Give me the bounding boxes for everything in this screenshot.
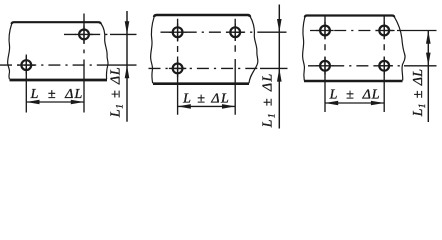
svg-text:L ± ΔL: L ± ΔL xyxy=(30,87,84,102)
L1 lower extension line xyxy=(108,64,137,66)
hole crosshair at (384.2,65.8) xyxy=(376,57,393,74)
dimension L line fig1 xyxy=(26,101,84,103)
holes C3/C4 horizontal centerline (y=65.8) xyxy=(308,65,404,67)
hole C3 xyxy=(320,61,330,71)
dimension L line fig3 xyxy=(325,102,384,104)
holes C2/C4 vertical centerline / L extension xyxy=(383,17,385,113)
plate 1 top edge xyxy=(12,22,101,24)
plate 3 bottom edge xyxy=(304,80,403,83)
plate 2 left break edge xyxy=(151,17,155,84)
hole B2 vertical centerline / L extension xyxy=(234,19,236,115)
arrow down fig1 L1 (above upper ext) xyxy=(125,21,130,34)
hole A2 vertical centerline / L extension xyxy=(83,14,85,113)
dimension L line fig2 xyxy=(178,105,236,107)
L1 upper extension line fig3 xyxy=(397,30,437,32)
svg-text:L1 ± ΔL: L1 ± ΔL xyxy=(261,72,277,128)
svg-text:L1 ± ΔL: L1 ± ΔL xyxy=(411,69,427,118)
plate 3 top edge xyxy=(305,16,395,18)
plate 2 bottom edge xyxy=(153,82,249,85)
hole A1 xyxy=(21,60,31,70)
hole crosshair at (26.3,65.1) xyxy=(18,56,35,73)
L1 upper extension line fig2 xyxy=(262,31,287,33)
hole crosshair at (384.2,30.5) xyxy=(376,22,393,39)
svg-text:L1 ± ΔL: L1 ± ΔL xyxy=(108,67,124,119)
L1 lower extension line fig3 xyxy=(404,65,437,67)
hole crosshair at (84,34.4) xyxy=(75,26,92,43)
svg-text:L ± ΔL: L ± ΔL xyxy=(182,91,230,106)
plate 1 bottom edge xyxy=(10,79,108,82)
arrow right fig2 L xyxy=(222,104,235,109)
hole C4 xyxy=(379,61,389,71)
arrow up fig2 L1 xyxy=(277,68,282,81)
hole A2 xyxy=(79,30,89,40)
arrow right fig1 L xyxy=(71,100,84,105)
hole B1 xyxy=(173,27,183,37)
hole crosshair at (235.2,32.2) xyxy=(227,24,244,41)
svg-text:L ± ΔL: L ± ΔL xyxy=(329,87,381,102)
arrow up fig3 L1 (inside, at top) xyxy=(426,31,431,44)
hole B1/B3 vertical centerline / L extension xyxy=(177,19,179,115)
arrow up fig1 L1 (below lower ext) xyxy=(125,65,130,78)
plate 3 right break edge xyxy=(394,17,405,81)
arrow left fig1 L xyxy=(26,100,39,105)
arrow left fig3 L xyxy=(325,101,338,106)
dimension L1 line fig3 xyxy=(427,31,429,123)
arrow down fig2 L1 xyxy=(277,19,282,32)
hole crosshair at (177.6,32.2) xyxy=(169,24,186,41)
holes C1/C2 horizontal centerline (y=30.5) xyxy=(310,30,397,32)
hole crosshair at (177.6,68.4) xyxy=(169,60,186,77)
hole crosshair at (325,30.5) xyxy=(316,22,333,39)
hole C2 xyxy=(379,26,389,36)
hole A1 horizontal centerline (y=65) xyxy=(0,64,108,66)
hole A1 vertical centerline / L extension xyxy=(25,55,27,113)
holes C1/C3 vertical centerline / L extension xyxy=(324,17,326,113)
plate 1 left break edge xyxy=(8,24,12,80)
dimension L1 line fig1 xyxy=(126,11,128,122)
hole B3 horizontal centerline (y=68) xyxy=(149,67,261,69)
arrow left fig2 L xyxy=(178,104,191,109)
dimension L1 line fig2 xyxy=(278,5,280,129)
plate 3 left break edge xyxy=(303,17,305,81)
L1 lower extension line fig2 xyxy=(260,67,288,69)
hole A2 horizontal centerline (y=34) xyxy=(64,33,110,35)
arrow down fig3 L1 (inside, at bottom) xyxy=(426,53,431,66)
plate 2 right break edge xyxy=(249,17,258,84)
hole B2 xyxy=(230,27,240,37)
hole C1 xyxy=(320,26,330,36)
L1 upper extension line xyxy=(110,33,137,35)
plate 1 right break edge xyxy=(101,24,108,80)
plate 2 top edge xyxy=(154,15,250,17)
hole B3 xyxy=(173,64,183,74)
holes B1/B2 horizontal centerline (y=32) xyxy=(161,31,263,33)
hole crosshair at (325,65.8) xyxy=(316,57,333,74)
arrow right fig3 L xyxy=(371,101,384,106)
